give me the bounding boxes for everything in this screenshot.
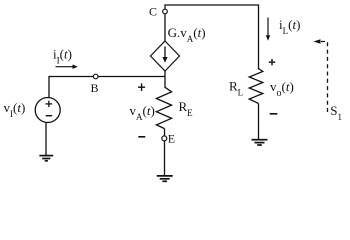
wire: R_L to ground bbox=[258, 104, 260, 140]
svg-text:vA(t): vA(t) bbox=[130, 103, 155, 122]
node B bbox=[93, 74, 98, 79]
wire: input net from source corner through node B to middle junction bbox=[49, 77, 165, 98]
minus sign of v_A bbox=[138, 136, 145, 138]
node E bbox=[162, 136, 167, 141]
wire: top net from node C stub to R_L corner and down bbox=[165, 5, 259, 70]
svg-text:iI(t): iI(t) bbox=[53, 47, 72, 66]
svg-text:iL(t): iL(t) bbox=[279, 17, 300, 36]
wire: R_E to node E bbox=[164, 129, 166, 136]
voltage source v_I bbox=[35, 98, 60, 123]
svg-text:E: E bbox=[168, 131, 175, 145]
svg-text:G.vA(t): G.vA(t) bbox=[168, 25, 206, 44]
svg-text:B: B bbox=[91, 81, 99, 95]
svg-text:vI(t): vI(t) bbox=[4, 100, 26, 119]
plus sign of v_o bbox=[269, 59, 275, 65]
ground (middle) bbox=[157, 176, 173, 181]
dashed feedback pointer S_1 line bbox=[321, 42, 328, 115]
ground (right) bbox=[252, 140, 268, 145]
resistor R_E bbox=[156, 87, 171, 128]
dependent source G.v_A(t) (diamond) bbox=[151, 41, 180, 71]
node C bbox=[163, 9, 168, 14]
arrow for i_L bbox=[267, 18, 269, 36]
wire: source bottom to ground bbox=[45, 123, 47, 156]
arrow inside dependent source bbox=[164, 47, 166, 58]
dashed feedback pointer S_1 arrowhead bbox=[314, 39, 321, 44]
wire: node E to ground bbox=[164, 141, 166, 176]
ground (left) bbox=[39, 156, 53, 161]
wire: junction down to R_E bbox=[164, 71, 166, 88]
minus sign of v_o bbox=[270, 113, 278, 115]
svg-text:vo(t): vo(t) bbox=[270, 79, 294, 99]
plus sign of v_A bbox=[138, 83, 145, 91]
arrow for i_I bbox=[56, 66, 73, 68]
svg-text:S1: S1 bbox=[330, 103, 342, 122]
svg-text:C: C bbox=[149, 5, 157, 19]
resistor R_L bbox=[249, 69, 263, 104]
svg-text:RE: RE bbox=[179, 99, 194, 118]
svg-text:RL: RL bbox=[229, 79, 243, 98]
minus sign inside source bbox=[46, 115, 53, 117]
plus sign inside source bbox=[46, 101, 53, 107]
